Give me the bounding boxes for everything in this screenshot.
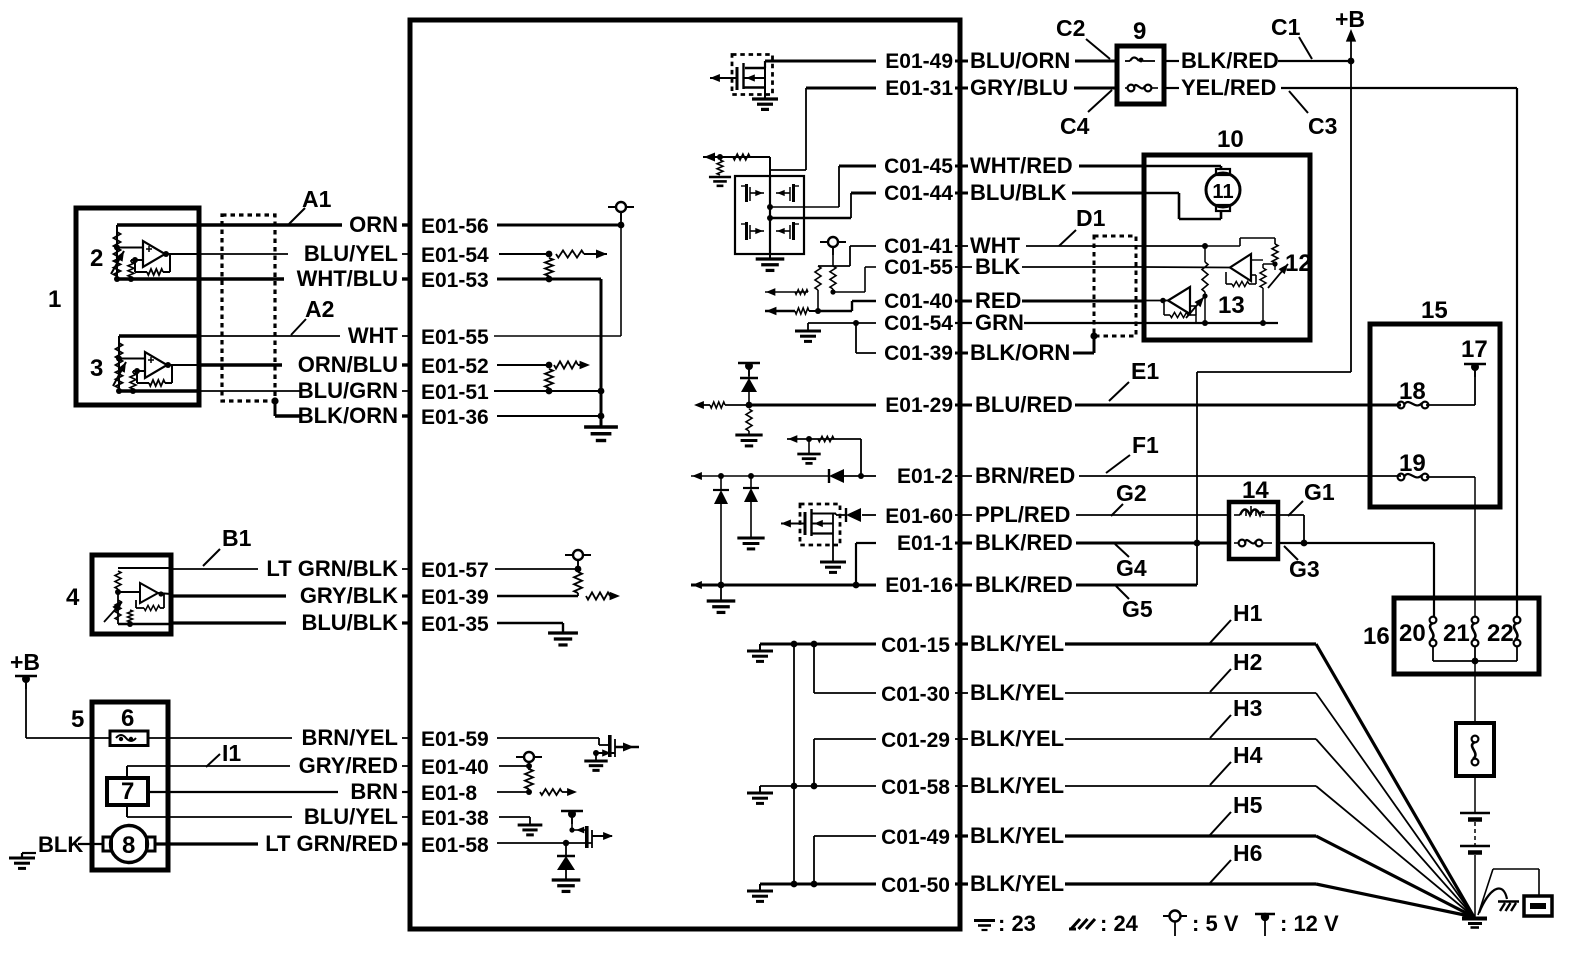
H-bridge box [735,176,804,254]
pin tick E01-58 [409,836,412,852]
pin tick C01-54 [959,315,962,331]
pin tick E01-55 [409,328,412,344]
solenoid box 7 [107,778,148,805]
svg-text:BLK/YEL: BLK/YEL [970,680,1064,705]
internal resistor b [830,266,836,289]
12V supply symbol 17 [1464,363,1486,365]
dashed box around MOSFET Q3 [732,55,773,95]
wire GRY/BLU [955,87,968,90]
chassis ground squiggle [1479,888,1507,913]
label G3 leader [1284,546,1298,560]
resistor E01-29 to ground [746,409,752,431]
internal wire E01-60 [862,514,876,516]
internal wire C01-30 [814,692,876,694]
svg-text:BLU/BLK: BLU/BLK [301,610,398,635]
sensor element 2 (potentiometer + op-amp) [117,223,199,226]
relay box 15 [1370,324,1500,507]
wire relay coil to E01-1 [1270,514,1304,516]
resistor on H-bridge feed [733,154,750,160]
label H4 leader [1210,762,1231,785]
dashed box MOSFET Q4 [800,504,840,545]
svg-text:C3: C3 [1308,113,1337,139]
svg-text:E01-55: E01-55 [421,326,489,349]
label A2 leader [291,319,306,335]
svg-text:C01-49: C01-49 [881,826,950,849]
component 6 (fuse element) [110,731,148,746]
ignition switch box 9 [1117,46,1164,104]
pin tick E01-49 [959,53,962,69]
svg-text:17: 17 [1461,336,1488,363]
internal wire E01-29 [749,404,876,407]
pin tick E01-57 [409,561,412,577]
wire BLK/ORN shield drain [271,397,278,404]
svg-text:12: 12 [1285,250,1312,277]
MOSFET driver Q2 (E01-58) [585,826,589,848]
svg-text:PPL/RED: PPL/RED [975,502,1070,527]
wire GRY/RED [126,766,128,778]
svg-text:LT GRN/BLK: LT GRN/BLK [266,556,398,581]
svg-text:22: 22 [1487,620,1514,647]
ground (23) E01-16 net [720,585,722,600]
label H3 leader [1210,715,1231,738]
svg-text:2: 2 [90,245,103,272]
svg-text:C01-29: C01-29 [881,729,950,752]
H-bridge FET bottom-left [745,222,748,240]
ground (23) E01-29 [735,434,762,437]
svg-text:19: 19 [1399,450,1426,477]
svg-text:BLK: BLK [38,832,83,857]
wire YEL/RED from switch 9 [1164,87,1179,89]
sensor element 3 (potentiometer + op-amp) [119,334,199,337]
wire BLK/YEL H3 [955,738,968,740]
wire RED [955,300,972,303]
svg-text:BLK/RED: BLK/RED [1181,48,1279,73]
internal wire E01-59 [497,737,599,739]
motor 8 [111,826,148,863]
resistor to ground at H-bridge [717,160,723,175]
svg-text:C01-55: C01-55 [884,256,953,279]
svg-text:4: 4 [66,584,80,611]
svg-text:E1: E1 [1131,358,1159,384]
wire BLK/RED low [955,584,972,587]
wire BLU/ORN [955,60,968,63]
wire GRY/BLK [171,594,286,597]
wire BLU/GRN [199,390,300,392]
svg-text:E01-58: E01-58 [421,834,489,857]
pin tick C01-40 [959,293,962,309]
relay 14 contact [1239,540,1246,547]
internal resistor a [815,266,821,290]
svg-text:BLK/ORN: BLK/ORN [298,403,398,428]
svg-text:G2: G2 [1116,480,1147,506]
svg-text:A2: A2 [305,296,334,322]
wire ORN/BLU [199,363,282,366]
svg-text:E01-56: E01-56 [421,215,489,238]
resistor WHT net divider [1204,246,1206,262]
svg-text:+B: +B [1335,6,1365,32]
svg-text:BLU/RED: BLU/RED [975,392,1073,417]
zener diode E01-29 [740,377,758,379]
svg-text:A1: A1 [302,186,332,212]
internal wire C01-44 [851,192,876,195]
wire BRN/RED [955,475,972,477]
svg-text:BLK: BLK [975,254,1020,279]
svg-text:GRY/BLK: GRY/BLK [300,583,398,608]
legend chassis symbol [1069,919,1095,929]
label H2 leader [1210,669,1231,692]
ground (23) Q4 [820,561,846,564]
main ground point (23) [1462,917,1487,921]
svg-text:H2: H2 [1233,649,1262,675]
svg-text:G1: G1 [1304,479,1335,505]
svg-text:G3: G3 [1289,556,1320,582]
inline connector contacts [1472,736,1479,743]
svg-text:BLK/RED: BLK/RED [975,572,1073,597]
svg-text:BLU/YEL: BLU/YEL [304,241,398,266]
wire into H-bridge left [703,156,770,158]
ground (23) C01-58 [759,786,761,792]
label B1 leader [203,549,220,566]
svg-text:C01-40: C01-40 [884,290,953,313]
label F1 leader [1106,455,1130,473]
svg-text:WHT/BLU: WHT/BLU [297,266,398,291]
pin tick C01-45 [959,158,962,174]
svg-text:E01-35: E01-35 [421,613,489,636]
svg-text:E01-52: E01-52 [421,355,489,378]
pin tick E01-2 [959,468,962,484]
svg-text:F1: F1 [1132,432,1159,458]
potentiometer 12 wiper [1268,264,1288,288]
wire WHT/RED to motor [1144,165,1221,168]
sensor 4 potentiometer [117,592,119,624]
internal resistor E01-54 [556,250,584,257]
label G1 leader [1288,501,1303,516]
svg-text:WHT: WHT [348,323,399,348]
svg-text:E01-53: E01-53 [421,269,489,292]
wire BLK/RED mid [955,542,972,545]
wire ground to body harness box [1478,869,1493,915]
svg-text:1: 1 [48,286,61,313]
ground (23) C01-15 [759,644,761,650]
svg-text:+B: +B [10,649,40,675]
5V supply symbol C01-41 [820,241,828,243]
label E1 leader [1109,382,1129,401]
pin tick C01-49 [959,828,962,844]
svg-text:BLK/YEL: BLK/YEL [970,823,1064,848]
MOSFET Q3 (E01-49) [745,67,765,69]
internal bus A [793,644,795,884]
connector A1/A2 dashed box [222,215,275,401]
wire switch 19 right [1426,476,1475,478]
svg-text:C01-45: C01-45 [884,155,953,178]
svg-text:C01-54: C01-54 [884,312,953,335]
relay block box 16 [1394,598,1539,674]
MOSFET Q4 (E01-60) [836,514,846,516]
inline connector box [1456,723,1494,776]
ground (23) at 751 [737,537,764,540]
wire BRN [148,791,338,793]
internal wire E01-54 [499,253,549,255]
sensor assembly box 1 [76,208,199,405]
wire bus to connector [1474,661,1476,723]
wire BLK/YEL H1 [955,642,968,645]
resistor feedback op-amp 12 [1274,238,1276,244]
label D1 leader [1059,230,1076,246]
svg-text:BLK/YEL: BLK/YEL [970,773,1064,798]
svg-text:20: 20 [1399,620,1426,647]
internal wire C01-49 [814,835,876,837]
wire WHT/RED [955,165,968,168]
internal wire E01-2 [861,475,876,477]
svg-text:E01-29: E01-29 [885,394,953,417]
svg-text:BLU/GRN: BLU/GRN [298,378,398,403]
svg-text:C01-41: C01-41 [884,235,953,258]
svg-text:6: 6 [121,705,134,732]
pin tick C01-29 [959,731,962,747]
H-bridge mid nodes [767,204,773,210]
label C2 leader [1086,39,1110,59]
svg-text:H6: H6 [1233,840,1262,866]
pin tick E01-8 [409,784,412,800]
label C4 leader [1088,90,1112,112]
internal wire E01-2 left [691,475,829,477]
svg-text:I1: I1 [222,740,241,766]
svg-text:C2: C2 [1056,15,1085,41]
internal wire E01-55 [494,335,621,337]
svg-text:E01-59: E01-59 [421,728,489,751]
op-amp 12 feedback resistor [1251,274,1256,276]
ground (23) below diode [552,878,581,881]
wire WHT/BLU [199,277,284,280]
internal wire E01-16 [721,584,876,587]
svg-text:B1: B1 [222,525,252,551]
pin tick E01-38 [409,809,412,825]
wire battery to ground [1474,855,1476,917]
wire BLK/YEL H4 [955,785,968,787]
internal wire C01-55 net [865,266,876,268]
ground (23) at E01-35 [548,631,578,634]
svg-text:5: 5 [71,706,84,733]
wire LT GRN/BLK [171,568,258,570]
internal wire C01-58 [760,785,876,787]
wire GRN [955,322,972,324]
ECU engine control module outline U1 [410,20,960,929]
switch 9 upper contact [1130,58,1139,62]
svg-text:7: 7 [121,778,134,805]
throttle body box 10 [1144,155,1310,340]
sensor 4 op-amp [115,589,121,595]
sensor 4 bottom wire [118,623,171,626]
pin tick C01-44 [959,185,962,201]
svg-text:C4: C4 [1060,113,1090,139]
MOSFET driver Q1 (E01-59) [608,735,612,757]
svg-text:: 5 V: : 5 V [1192,911,1239,936]
svg-text:GRN: GRN [975,310,1024,335]
wire BLK to ground [78,843,103,845]
wire LT GRN/RED [155,842,258,845]
svg-text:E01-31: E01-31 [885,77,953,100]
pin tick E01-29 [959,397,962,413]
op-amp 13 [1168,287,1190,314]
internal resistor divider E01-54/E01-53 [545,258,553,276]
pin tick E01-40 [409,758,412,774]
svg-text:E01-39: E01-39 [421,586,489,609]
svg-text:13: 13 [1218,292,1245,319]
svg-text:G5: G5 [1122,596,1153,622]
ground (23) Q3 [752,97,778,100]
internal wire E01-35 to ground [497,622,563,624]
svg-text:E01-54: E01-54 [421,244,489,267]
svg-text:11: 11 [1212,181,1233,203]
svg-text:9: 9 [1133,18,1146,45]
internal wire C01-15 [760,643,876,646]
pin tick E01-52 [409,357,412,373]
internal wire C01-54 to ground [808,322,876,324]
internal wire E01-38 to ground [499,816,530,818]
legend ground symbol [974,919,995,922]
label C1 leader [1299,37,1312,59]
svg-text:BLK/YEL: BLK/YEL [970,871,1064,896]
internal wire E01-53 [497,278,601,281]
svg-text:C01-39: C01-39 [884,342,953,365]
motor 11 [1206,173,1240,207]
op-amp 13 feedback resistor [1190,305,1196,307]
wire BLK/YEL H5 [955,834,968,837]
svg-text:WHT/RED: WHT/RED [970,153,1073,178]
internal wire E01-56 to 5V pull-up [497,224,621,227]
wire YEL/RED vertical to relay block [1516,88,1518,617]
wire BLU/YEL lower [126,805,128,817]
pin tick E01-51 [409,383,412,399]
svg-text:C01-50: C01-50 [881,874,950,897]
internal wire C01-40 net [852,300,876,302]
label H1 leader [1210,620,1231,643]
pin tick E01-59 [409,730,412,746]
legend 5V symbol [1163,915,1169,917]
label I1 leader [206,754,220,767]
svg-text:8: 8 [122,832,135,859]
pin tick E01-1 [959,535,962,551]
H-bridge FET top-left [745,184,748,202]
diode E01-2 [828,469,830,483]
svg-text:E01-1: E01-1 [897,532,953,555]
ground (23) below E01-36 net [584,425,618,428]
svg-text:15: 15 [1421,297,1448,324]
svg-text:BRN/RED: BRN/RED [975,463,1075,488]
relay box 14 [1229,502,1278,559]
internal wire E01-51 [494,390,601,392]
12V clamp symbol E01-58 [561,810,583,812]
svg-text:E01-60: E01-60 [885,505,953,528]
potentiometer 13 wiper [1186,297,1204,318]
internal wire E01-36 [497,415,601,417]
ground (23) at BLK [9,857,35,860]
label A1 leader [289,208,305,224]
svg-text:E01-2: E01-2 [897,465,953,488]
pin tick C01-41 [959,238,962,254]
wire BLK/ORN right [955,352,968,355]
svg-text:14: 14 [1242,477,1269,504]
relay 14 coil [1240,510,1264,516]
switch 20 [1430,617,1437,624]
svg-text:C01-15: C01-15 [881,634,950,657]
switch 18 [1398,402,1405,409]
wire +B to throttle body [25,683,27,738]
wire BLK/YEL H6 [955,882,968,885]
internal resistor divider E01-52/E01-51 [545,369,553,388]
wire resistor top to op-amp12 [1251,259,1263,261]
internal wire E01-39 [497,595,578,597]
sensor 4 internal resistor [118,567,171,569]
svg-text:BLK/RED: BLK/RED [975,530,1073,555]
switch 19 [1398,474,1405,481]
internal wire C01-29 [814,738,876,740]
internal ground net vertical [600,279,603,427]
internal wire C01-41 [850,245,876,247]
connector D1 dashed box [1094,236,1136,336]
svg-text:BLU/BLK: BLU/BLK [970,180,1067,205]
protection diode E01-58 [565,843,567,856]
12V clamp E01-29 [738,362,760,364]
ground (23) C01-50 [759,884,761,890]
svg-text:ORN/BLU: ORN/BLU [298,352,398,377]
svg-text:BLK/YEL: BLK/YEL [970,631,1064,656]
wire GRN bus in box 10 [1144,322,1278,324]
wire BLU/YEL [199,253,288,255]
svg-text:D1: D1 [1076,205,1106,231]
label G2 leader [1111,504,1123,516]
svg-text:H3: H3 [1233,695,1262,721]
svg-text:YEL/RED: YEL/RED [1181,75,1276,100]
switch 21 [1472,617,1479,624]
internal wire E01-57 to 5V [495,568,578,570]
pin tick C01-15 [959,636,962,652]
ground (23) snubber [808,439,810,453]
wire +B feed horizontal [1197,371,1351,373]
svg-text:G4: G4 [1116,555,1147,581]
switch 9 lower contact [1128,85,1135,92]
wire BLU/BLK to motor [1144,192,1179,195]
label H6 leader [1210,860,1231,883]
diode E01-60 [845,508,847,522]
ground (23) C01-54 [795,330,821,333]
zener to ground at 751 [750,476,752,488]
wire +B feed vertical [1350,61,1352,372]
wire BLU/BLK [171,621,286,624]
svg-text:21: 21 [1443,620,1470,647]
ground (23) at E01-38 [518,824,543,827]
internal snubber above E01-2 [787,438,861,440]
pin tick C01-30 [959,685,962,701]
internal wire E01-31 [806,87,876,90]
wire op-amp13 to GRN [1195,315,1197,323]
internal wire C01-45 [839,165,876,168]
wire BLU/BLK right [955,192,968,195]
svg-text:GRY/RED: GRY/RED [299,753,398,778]
internal net E01-56/E01-55 [620,225,622,336]
svg-text:E01-36: E01-36 [421,406,489,429]
H-bridge center rail [769,176,771,254]
internal resistor E01-52 [554,361,578,368]
pin tick C01-50 [959,876,962,892]
wire WHT right [955,245,968,247]
wire WHT net in box 10 [1144,245,1205,247]
svg-text:BRN: BRN [350,779,398,804]
H-bridge FET top-right [792,184,795,202]
svg-text:E01-16: E01-16 [885,574,953,597]
pin tick E01-31 [959,80,962,96]
pin tick E01-54 [409,246,412,262]
